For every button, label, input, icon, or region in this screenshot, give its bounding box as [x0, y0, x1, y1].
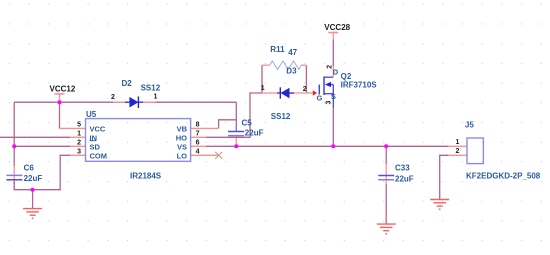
no-connect X on pin 4 LO — [215, 152, 222, 159]
diode D2 SS12 — [111, 79, 161, 108]
svg-text:1: 1 — [455, 139, 459, 146]
svg-text:47: 47 — [288, 48, 297, 57]
wire VCC12 to pin5 vertical — [59, 102, 61, 128]
svg-text:HO: HO — [176, 133, 187, 142]
svg-text:C6: C6 — [24, 163, 35, 172]
IC U5 body rectangle — [86, 119, 191, 162]
svg-text:G: G — [317, 94, 323, 103]
power port VCC28 — [324, 23, 350, 40]
svg-text:C33: C33 — [395, 163, 410, 172]
wire HO net to D3 left node — [206, 93, 262, 137]
svg-text:22uF: 22uF — [24, 174, 43, 183]
drain stub and lead — [324, 76, 333, 78]
svg-text:U5: U5 — [86, 110, 97, 119]
IC U5 pin leads — [60, 128, 219, 155]
capacitor C6 22uF — [6, 163, 42, 183]
wire ground tap below C6 — [32, 190, 34, 209]
svg-text:IR2184S: IR2184S — [130, 171, 162, 180]
ground symbol below C6 — [23, 209, 42, 219]
pin 6 lead VS — [191, 145, 206, 147]
gate wire with red arrow — [306, 92, 313, 94]
wire C6 lead through plates — [13, 166, 15, 190]
capacitor C5 22uF — [228, 119, 264, 138]
svg-text:VCC12: VCC12 — [50, 84, 76, 93]
wire VCC12 rail horizontal — [14, 101, 236, 103]
svg-text:2: 2 — [326, 65, 333, 69]
channel bar — [323, 77, 325, 96]
svg-text:VS: VS — [177, 142, 187, 151]
svg-text:2: 2 — [77, 140, 81, 147]
ground symbol below C33 — [377, 224, 396, 234]
svg-text:2: 2 — [303, 86, 307, 93]
junction dot C33 on VS net — [384, 144, 388, 148]
svg-text:VCC: VCC — [90, 124, 106, 133]
svg-text:COM: COM — [90, 151, 108, 160]
connector J5 KF2EDGKD-2P_508 — [448, 120, 540, 180]
svg-text:22uF: 22uF — [245, 129, 264, 138]
wire VS net main horizontal — [206, 145, 448, 147]
junction dot Q2 source on VS net — [331, 144, 335, 148]
svg-text:KF2EDGKD-2P_508: KF2EDGKD-2P_508 — [466, 172, 541, 181]
wire VB step from pin8 — [219, 120, 237, 129]
source vertical joining body — [332, 85, 334, 109]
svg-text:1: 1 — [154, 94, 158, 101]
wire C33 top lead — [385, 146, 387, 164]
svg-text:IRF3710S: IRF3710S — [341, 81, 378, 90]
junction dot C5 on VS net — [234, 144, 238, 148]
diode D3 SS12 (cathode left) — [261, 67, 307, 121]
wire C33 bottom lead to ground — [385, 184, 387, 224]
capacitor C33 22uF — [378, 163, 414, 183]
wire R11/D3 right vertical to gate — [305, 65, 307, 93]
svg-text:3: 3 — [77, 149, 81, 156]
transistor Q2 IRF3710S N-MOSFET — [306, 65, 377, 108]
svg-text:2: 2 — [111, 94, 115, 101]
svg-text:1: 1 — [77, 131, 81, 138]
svg-text:D3: D3 — [286, 67, 297, 76]
svg-text:4: 4 — [196, 149, 200, 156]
wire J5 pin2 to ground drop — [440, 155, 449, 199]
svg-text:2: 2 — [455, 148, 459, 155]
svg-text:1: 1 — [261, 85, 265, 92]
gate bar — [318, 85, 320, 95]
svg-text:SD: SD — [90, 142, 101, 151]
body stub with arrow — [328, 84, 334, 86]
svg-text:S: S — [331, 92, 336, 101]
svg-text:SS12: SS12 — [271, 112, 291, 121]
junction dot C6 ground rail — [31, 188, 35, 192]
svg-text:D2: D2 — [122, 79, 133, 88]
wire R11 left vertical — [261, 65, 263, 93]
svg-text:3: 3 — [326, 101, 333, 105]
svg-text:VCC28: VCC28 — [324, 23, 350, 32]
svg-text:22uF: 22uF — [395, 174, 414, 183]
junction dot SD net — [12, 144, 16, 148]
svg-text:D: D — [333, 67, 339, 76]
pin 3 lead COM — [70, 154, 85, 156]
pin 2 lead SD — [70, 145, 85, 147]
pin 5 lead VCC — [60, 127, 86, 129]
wire D2 net drop to C5 — [235, 102, 237, 131]
pin 1 lead IN — [70, 136, 85, 138]
pin 7 lead HO — [191, 136, 206, 138]
source stub — [324, 93, 333, 95]
wire C5 bottom lead to VS net — [235, 136, 237, 147]
svg-text:7: 7 — [196, 131, 200, 138]
svg-text:Q2: Q2 — [341, 72, 352, 81]
pin 8 lead VB — [191, 127, 219, 129]
ground symbol at J5 pin2 — [430, 200, 449, 210]
resistor R11 — [262, 45, 306, 70]
wire VCC12 rail left drop vertical — [13, 102, 15, 166]
wire source down to VS net — [332, 108, 334, 146]
wire IN net entry — [0, 136, 70, 138]
pin 4 lead LO — [191, 154, 219, 156]
wire SD net entry — [14, 145, 70, 147]
wire COM to C6 bottom: left, down, across — [14, 155, 70, 189]
svg-text:R11: R11 — [270, 45, 285, 54]
junction dot VCC12 rail — [58, 100, 62, 104]
wire C33 leads near plates — [385, 164, 387, 184]
svg-text:5: 5 — [77, 122, 81, 129]
svg-text:J5: J5 — [465, 120, 474, 129]
svg-text:8: 8 — [196, 122, 200, 129]
svg-text:VB: VB — [177, 124, 188, 133]
wire VCC28 down to drain — [332, 39, 334, 66]
svg-text:C5: C5 — [242, 119, 253, 128]
svg-text:6: 6 — [196, 140, 200, 147]
power port VCC12 — [50, 84, 76, 102]
svg-text:SS12: SS12 — [141, 84, 161, 93]
svg-text:LO: LO — [177, 151, 188, 160]
